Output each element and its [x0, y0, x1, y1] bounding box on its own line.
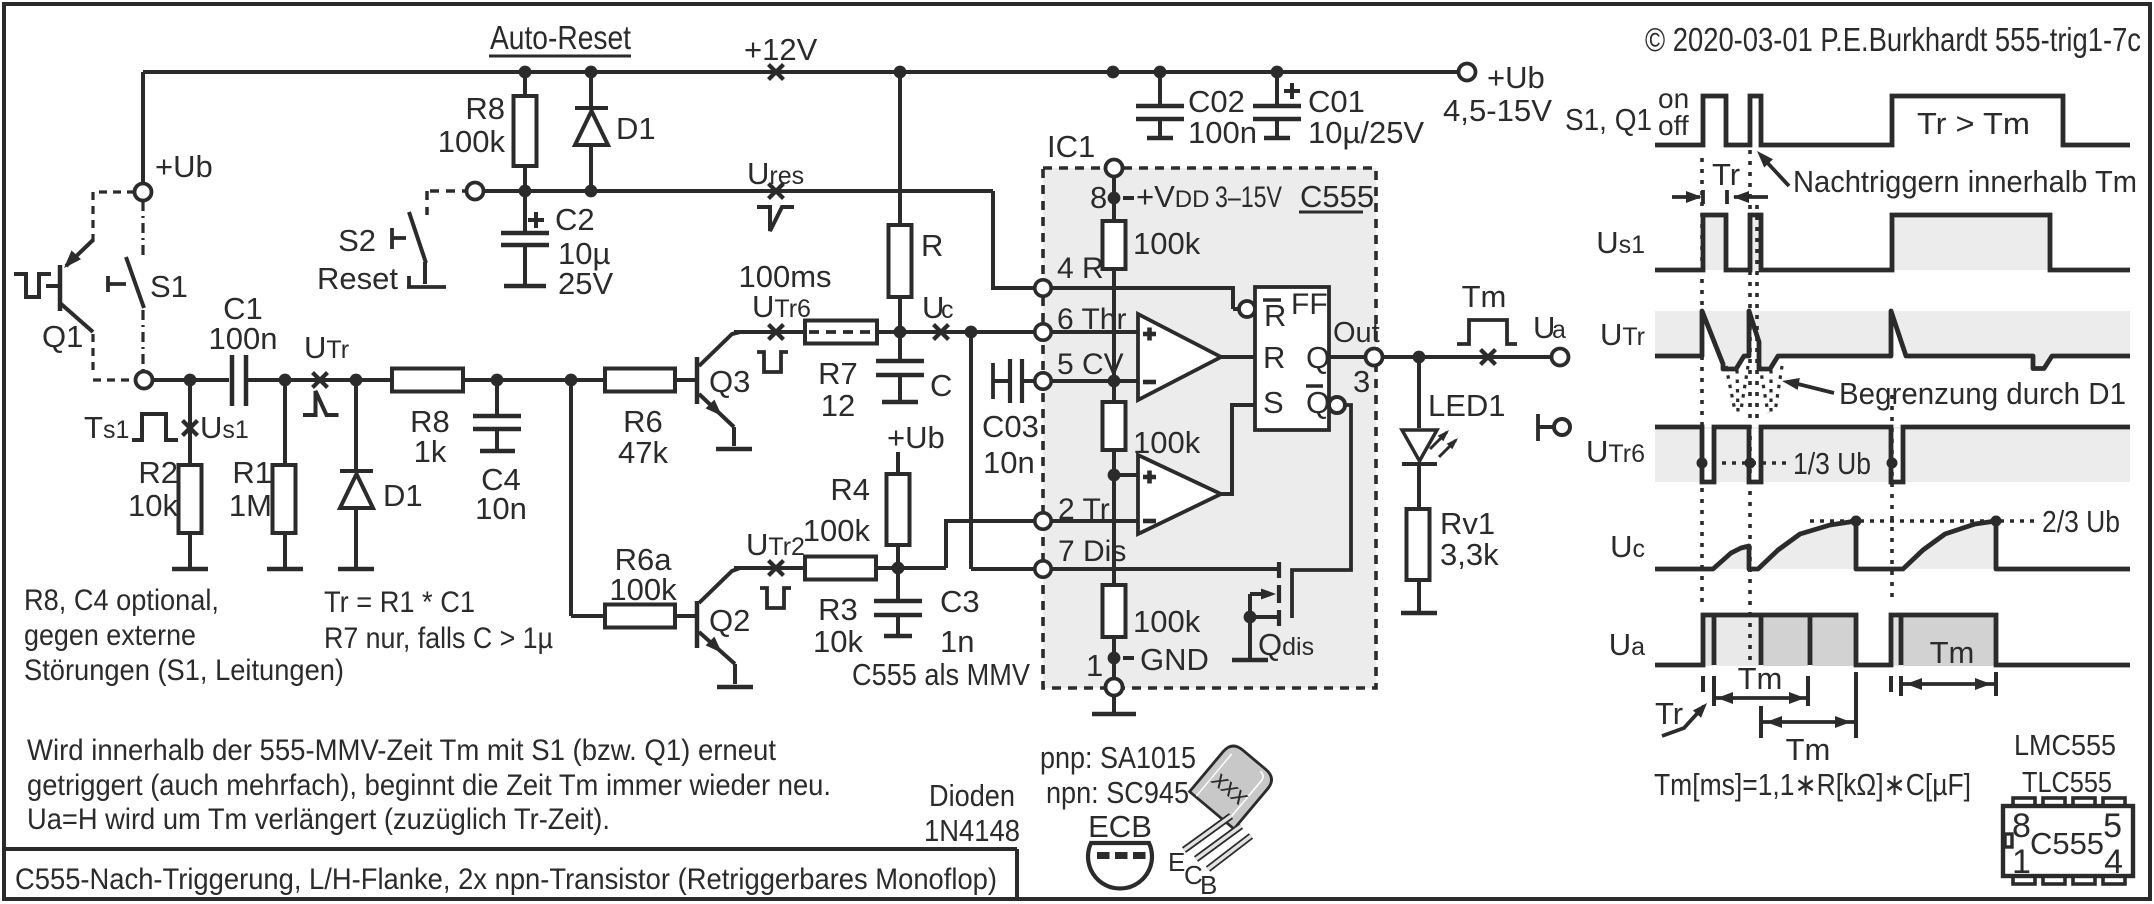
svg-text:Q1: Q1	[42, 319, 83, 354]
svg-text:3–15V: 3–15V	[1215, 181, 1282, 214]
svg-text:3,3k: 3,3k	[1440, 537, 1499, 572]
svg-text:Q2: Q2	[709, 603, 750, 638]
svg-text:1/3 Ub: 1/3 Ub	[1793, 446, 1871, 481]
svg-text:4,5-15V: 4,5-15V	[1443, 93, 1552, 128]
svg-text:1n: 1n	[940, 624, 974, 659]
svg-text:npn: SC945: npn: SC945	[1046, 775, 1189, 810]
svg-text:Ua=H wird um Tm verlängert (zu: Ua=H wird um Tm verlängert (zuzüglich Tr…	[27, 803, 610, 836]
svg-text:2/3 Ub: 2/3 Ub	[2042, 504, 2120, 539]
svg-text:100k: 100k	[1133, 425, 1201, 460]
svg-text:UTr2: UTr2	[746, 527, 805, 562]
svg-text:100k: 100k	[1133, 226, 1201, 261]
svg-text:gegen externe: gegen externe	[24, 619, 196, 652]
svg-text:S2: S2	[338, 223, 376, 258]
svg-text:UTr6: UTr6	[1586, 434, 1645, 469]
svg-text:C555 als MMV: C555 als MMV	[852, 657, 1030, 692]
svg-text:R: R	[1263, 340, 1285, 375]
svg-text:10n: 10n	[983, 445, 1035, 480]
svg-text:C01: C01	[1308, 84, 1365, 119]
svg-text:Tr > Tm: Tr > Tm	[1917, 106, 2030, 141]
svg-text:+12V: +12V	[744, 32, 818, 67]
svg-text:Tm: Tm	[1738, 661, 1783, 696]
svg-text:Qdis: Qdis	[1258, 627, 1314, 662]
svg-text:8: 8	[1090, 180, 1107, 215]
svg-text:B: B	[1200, 870, 1217, 900]
svg-text:C: C	[930, 368, 952, 403]
svg-text:Ures: Ures	[747, 156, 804, 191]
svg-text:47k: 47k	[618, 435, 668, 470]
svg-text:8: 8	[2012, 807, 2031, 845]
svg-text:Rv1: Rv1	[1440, 506, 1495, 541]
svg-text:getriggert (auch mehrfach), be: getriggert (auch mehrfach), beginnt die …	[27, 769, 831, 802]
svg-text:Wird innerhalb der 555-MMV-Zei: Wird innerhalb der 555-MMV-Zeit Tm mit S…	[27, 734, 777, 767]
svg-text:Störungen (S1, Leitungen): Störungen (S1, Leitungen)	[24, 654, 344, 687]
svg-text:E: E	[1168, 847, 1185, 877]
svg-text:C555-Nach-Triggerung, L/H-Flan: C555-Nach-Triggerung, L/H-Flanke, 2x npn…	[15, 863, 997, 896]
svg-text:Out: Out	[1333, 317, 1380, 349]
svg-text:R6: R6	[623, 404, 663, 439]
svg-text:7 Dis: 7 Dis	[1058, 535, 1126, 568]
svg-text:Begrenzung durch D1: Begrenzung durch D1	[1839, 376, 2126, 411]
svg-text:C03: C03	[982, 409, 1039, 444]
svg-text:4 R: 4 R	[1057, 252, 1104, 285]
svg-text:R1: R1	[232, 455, 272, 490]
svg-text:100k: 100k	[803, 513, 871, 548]
svg-text:Nachtriggern innerhalb Tm: Nachtriggern innerhalb Tm	[1793, 164, 2137, 199]
svg-text:UTr: UTr	[304, 330, 349, 365]
svg-text:1: 1	[2012, 843, 2031, 881]
svg-text:R: R	[1264, 298, 1286, 333]
svg-text:10k: 10k	[128, 488, 178, 523]
svg-text:R: R	[921, 228, 943, 263]
svg-text:100n: 100n	[1188, 115, 1257, 150]
svg-text:Tr: Tr	[1655, 696, 1683, 731]
svg-text:25V: 25V	[558, 266, 613, 301]
svg-text:Us1: Us1	[1596, 225, 1645, 260]
svg-text:© 2020-03-01 P.E.Burkhardt 555: © 2020-03-01 P.E.Burkhardt 555-trig1-7c	[1645, 21, 2141, 58]
svg-text:c: c	[941, 296, 954, 324]
svg-text:5: 5	[2103, 807, 2122, 845]
svg-text:C2: C2	[555, 202, 595, 237]
svg-text:R7: R7	[818, 356, 858, 391]
svg-text:Us1: Us1	[200, 410, 249, 445]
svg-text:LED1: LED1	[1428, 388, 1506, 423]
svg-text:5 CV: 5 CV	[1057, 348, 1124, 381]
svg-text:R7 nur, falls C > 1µ: R7 nur, falls C > 1µ	[324, 622, 553, 655]
svg-text:S1: S1	[150, 269, 188, 304]
svg-text:R3: R3	[818, 592, 858, 627]
svg-text:6 Thr: 6 Thr	[1057, 303, 1126, 336]
svg-text:ECB: ECB	[1088, 809, 1152, 844]
svg-text:R8: R8	[465, 91, 505, 126]
svg-text:S: S	[1263, 385, 1284, 420]
svg-text:Tm[ms]=1,1∗R[kΩ]∗C[µF]: Tm[ms]=1,1∗R[kΩ]∗C[µF]	[1654, 767, 1971, 802]
svg-text:R4: R4	[830, 472, 870, 507]
svg-text:1M: 1M	[229, 488, 272, 523]
svg-text:C555: C555	[1300, 179, 1374, 214]
svg-text:D1: D1	[383, 478, 423, 513]
svg-text:+Ub: +Ub	[1487, 60, 1545, 95]
svg-text:3: 3	[1353, 364, 1370, 399]
svg-text:Tm: Tm	[1930, 635, 1975, 670]
svg-text:FF: FF	[1291, 288, 1328, 321]
svg-text:1N4148: 1N4148	[924, 813, 1020, 848]
svg-text:C3: C3	[940, 584, 980, 619]
svg-text:a: a	[1552, 316, 1566, 344]
svg-text:12: 12	[821, 388, 855, 423]
svg-text:R2: R2	[138, 455, 178, 490]
svg-text:C555: C555	[2030, 826, 2104, 861]
svg-text:UTr: UTr	[1600, 317, 1645, 352]
svg-text:100n: 100n	[209, 321, 278, 356]
svg-text:GND: GND	[1140, 642, 1209, 677]
svg-text:1k: 1k	[414, 434, 447, 469]
svg-text:UTr6: UTr6	[752, 289, 811, 324]
svg-text:10k: 10k	[813, 624, 863, 659]
svg-text:C02: C02	[1188, 84, 1245, 119]
svg-text:Q3: Q3	[709, 364, 750, 399]
svg-text:R8, C4 optional,: R8, C4 optional,	[24, 584, 219, 617]
svg-text:4: 4	[2104, 843, 2123, 881]
svg-text:1: 1	[1086, 648, 1103, 683]
svg-text:Uc: Uc	[1610, 529, 1645, 564]
svg-text:+Ub: +Ub	[887, 420, 945, 455]
svg-text:Ts1: Ts1	[84, 410, 129, 445]
svg-text:TLC555: TLC555	[2022, 767, 2112, 799]
svg-text:off: off	[1658, 110, 1689, 141]
svg-text:Q: Q	[1306, 385, 1330, 420]
svg-text:2 Tr: 2 Tr	[1058, 493, 1110, 526]
svg-text:IC1: IC1	[1047, 129, 1095, 164]
svg-text:100k: 100k	[1133, 604, 1201, 639]
svg-text:10n: 10n	[475, 491, 527, 526]
svg-text:100k: 100k	[609, 572, 677, 607]
svg-text:10µ/25V: 10µ/25V	[1308, 115, 1424, 150]
svg-text:D1: D1	[616, 111, 656, 146]
svg-text:Tm: Tm	[1786, 732, 1831, 767]
svg-text:pnp: SA1015: pnp: SA1015	[1040, 740, 1196, 775]
svg-text:Tr = R1 * C1: Tr = R1 * C1	[324, 586, 475, 619]
svg-text:Tr: Tr	[1712, 157, 1740, 192]
svg-text:Dioden: Dioden	[929, 778, 1015, 813]
svg-text:Auto-Reset: Auto-Reset	[490, 19, 631, 56]
svg-text:S1, Q1: S1, Q1	[1565, 102, 1652, 137]
svg-text:Q: Q	[1306, 340, 1330, 375]
svg-text:LMC555: LMC555	[2014, 730, 2116, 762]
svg-text:Tm: Tm	[1462, 279, 1507, 314]
svg-text:Reset: Reset	[317, 261, 398, 296]
svg-text:100k: 100k	[438, 124, 506, 159]
svg-text:+Ub: +Ub	[155, 149, 213, 184]
svg-text:Ua: Ua	[1609, 627, 1645, 662]
